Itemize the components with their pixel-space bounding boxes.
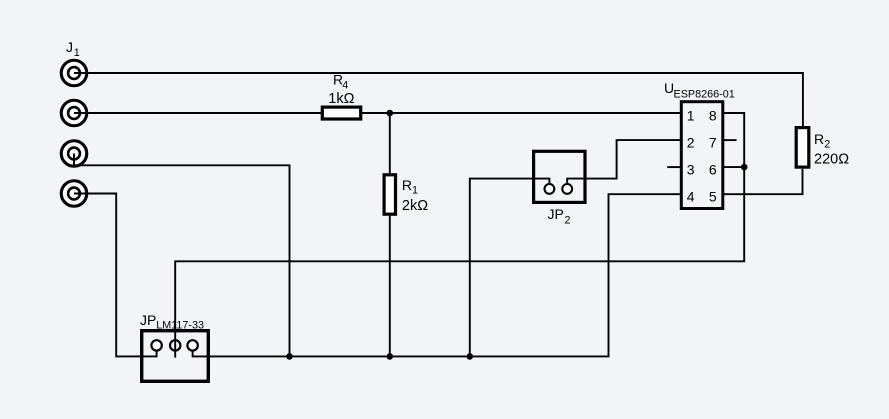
svg-text:1kΩ: 1kΩ bbox=[328, 91, 354, 107]
junction U pin 6 to pin 8 net bbox=[741, 164, 748, 171]
svg-text:7: 7 bbox=[709, 134, 717, 150]
junction bottom bus at J1.3 drop bbox=[286, 353, 293, 360]
pin number 3 bbox=[687, 161, 695, 177]
wire R1 bottom to bottom bus bbox=[389, 216, 391, 357]
junction bottom bus at R1 drop bbox=[387, 353, 394, 360]
svg-text:R: R bbox=[814, 131, 824, 147]
svg-text:5: 5 bbox=[709, 189, 717, 205]
wire JP2 pin 2 to U pin 2 bbox=[567, 140, 681, 184]
label R2 bbox=[814, 131, 830, 151]
label R4 bbox=[333, 72, 348, 92]
svg-text:8: 8 bbox=[709, 107, 717, 123]
svg-text:LM117-33: LM117-33 bbox=[156, 319, 204, 331]
svg-text:2kΩ: 2kΩ bbox=[402, 198, 428, 214]
wire J1.4 to JP pin 1 bbox=[74, 194, 157, 357]
wire JP pin 2 to U pin 8 bbox=[175, 113, 744, 358]
connector J1 pin 1 bbox=[61, 60, 87, 86]
pin number 5 bbox=[709, 189, 717, 205]
pin number 8 bbox=[709, 107, 717, 123]
svg-text:2: 2 bbox=[687, 134, 695, 150]
wire U pin 3 stub bbox=[667, 166, 681, 168]
wire JP2 pin 1 to bottom bus bbox=[470, 179, 550, 357]
regulator header JP LM117-33 bbox=[142, 331, 209, 382]
wire U pin 7 stub bbox=[724, 139, 737, 141]
wire R4 right to U pin 1 bbox=[362, 112, 681, 114]
connector J1 pin 2 bbox=[61, 100, 87, 126]
svg-text:1: 1 bbox=[687, 107, 695, 123]
svg-text:ESP8266-01: ESP8266-01 bbox=[674, 88, 735, 100]
svg-text:1: 1 bbox=[74, 47, 80, 59]
value 220Ω bbox=[814, 152, 849, 168]
svg-text:3: 3 bbox=[687, 161, 695, 177]
wire J1.3 to bottom bus bbox=[74, 154, 290, 357]
resistor R2 bbox=[796, 128, 809, 168]
wire JP pin 3 bottom bus to U pin 4 bbox=[193, 194, 681, 356]
pin number 7 bbox=[709, 134, 717, 150]
value 1kΩ bbox=[328, 91, 354, 107]
junction bottom bus at JP2 drop bbox=[467, 353, 474, 360]
wire J1.2 to R4 left bbox=[74, 112, 321, 114]
pin number 6 bbox=[709, 161, 717, 177]
pin number 4 bbox=[687, 189, 695, 205]
label JP2 bbox=[548, 206, 571, 227]
wire J1.1 to R2 top bbox=[74, 73, 803, 126]
wire U pin 6 stub bbox=[724, 166, 745, 168]
svg-text:JP: JP bbox=[548, 206, 564, 222]
value 2kΩ bbox=[402, 198, 428, 214]
svg-text:2: 2 bbox=[565, 215, 571, 227]
svg-text:4: 4 bbox=[342, 79, 348, 91]
label J1 bbox=[66, 39, 80, 59]
label R1 bbox=[402, 177, 418, 197]
resistor R1 bbox=[384, 175, 395, 214]
pin number 1 bbox=[687, 107, 695, 123]
svg-text:R: R bbox=[402, 177, 412, 193]
junction node A on R4 net bbox=[387, 110, 394, 117]
svg-text:1: 1 bbox=[412, 185, 418, 197]
svg-text:6: 6 bbox=[709, 161, 717, 177]
label U ESP8266-01 bbox=[664, 80, 735, 101]
connector J1 pin 3 bbox=[61, 141, 87, 167]
svg-text:2: 2 bbox=[824, 139, 830, 151]
IC U ESP8266-01 bbox=[681, 102, 723, 209]
label JP LM117-33 bbox=[140, 312, 204, 331]
resistor R4 bbox=[322, 107, 360, 119]
svg-text:J: J bbox=[66, 39, 73, 55]
svg-text:JP: JP bbox=[140, 312, 156, 328]
pin number 2 bbox=[687, 134, 695, 150]
svg-text:220Ω: 220Ω bbox=[814, 152, 849, 168]
wire U pin 5 to R2 bottom bbox=[724, 169, 803, 194]
svg-text:4: 4 bbox=[687, 189, 695, 205]
connector J1 pin 4 bbox=[61, 181, 87, 207]
header JP2 bbox=[534, 151, 585, 202]
wire node A to R1 top bbox=[389, 113, 391, 173]
